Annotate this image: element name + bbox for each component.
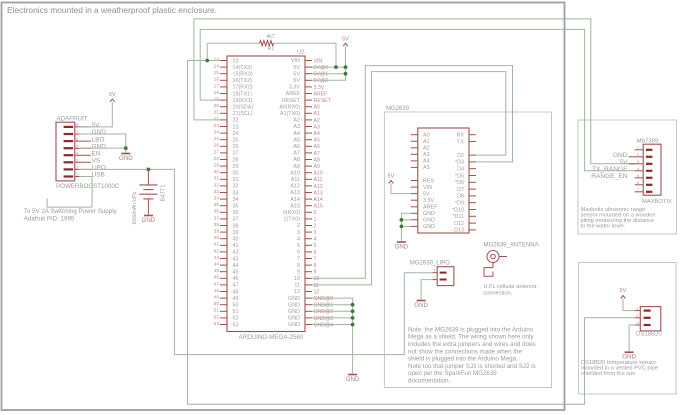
svg-text:2: 2	[637, 152, 640, 157]
wire 5V@1 pin to 5V net	[312, 73, 346, 75]
battery BATT1	[139, 169, 157, 214]
svg-text:A11: A11	[314, 177, 323, 183]
svg-text:*D5: *D5	[455, 173, 464, 179]
svg-text:A4: A4	[423, 159, 430, 165]
connector MG2639_LIPO body	[437, 267, 454, 286]
svg-text:A13: A13	[314, 190, 323, 196]
svg-text:A12: A12	[314, 184, 323, 190]
svg-text:A4: A4	[314, 131, 320, 137]
svg-text:GND: GND	[423, 211, 435, 217]
svg-text:7: 7	[314, 256, 317, 262]
svg-text:13: 13	[214, 57, 220, 63]
svg-text:LiPO: LiPO	[92, 165, 106, 172]
svg-text:GND: GND	[92, 143, 107, 150]
svg-text:42: 42	[214, 248, 220, 254]
svg-text:1: 1	[433, 268, 436, 273]
svg-text:49: 49	[214, 295, 220, 301]
svg-text:USB: USB	[92, 172, 105, 179]
svg-text:A0(RX0): A0(RX0)	[279, 104, 300, 110]
svg-text:5V: 5V	[620, 288, 627, 294]
wire 5V to DS18B20 pin1	[623, 299, 635, 311]
svg-text:A11: A11	[291, 177, 300, 183]
svg-text:2: 2	[297, 223, 300, 229]
svg-text:52: 52	[214, 314, 220, 320]
svg-text:A0: A0	[423, 133, 430, 139]
svg-text:A3: A3	[293, 124, 300, 130]
module box DS18B20 sensor	[579, 263, 677, 395]
wire GND@1	[312, 304, 353, 306]
svg-text:GND@3: GND@3	[314, 316, 334, 322]
svg-text:A14: A14	[314, 197, 323, 203]
svg-text:U.FL cellular antenna: U.FL cellular antenna	[484, 284, 538, 290]
svg-text:4: 4	[76, 150, 79, 155]
svg-text:A8: A8	[314, 157, 320, 163]
svg-text:26: 26	[233, 144, 239, 150]
wire D2 stub ext	[476, 154, 483, 156]
svg-text:Adafruit PID: 1995: Adafruit PID: 1995	[24, 216, 75, 223]
svg-text:25: 25	[233, 138, 239, 144]
svg-text:40: 40	[214, 235, 220, 241]
svg-text:LBO: LBO	[92, 136, 105, 143]
wire GND pin4	[79, 147, 125, 149]
svg-text:5V: 5V	[342, 37, 349, 43]
svg-text:43: 43	[233, 256, 239, 262]
svg-text:VIN: VIN	[314, 58, 323, 64]
svg-text:6: 6	[76, 136, 79, 141]
svg-text:Electronics mounted in a weath: Electronics mounted in a weatherproof pl…	[7, 5, 217, 15]
svg-text:19: 19	[214, 97, 220, 103]
connector MB7389 body	[643, 144, 661, 195]
svg-text:53: 53	[214, 321, 220, 327]
svg-text:includes the extra jumpers and: includes the extra jumpers and wires and…	[408, 341, 536, 348]
note DS18B20 text	[581, 360, 658, 377]
svg-text:A8: A8	[293, 157, 300, 163]
svg-text:34: 34	[233, 197, 239, 203]
svg-text:A4: A4	[293, 131, 300, 137]
svg-text:20: 20	[214, 103, 220, 109]
svg-text:25: 25	[214, 136, 220, 142]
wire pin13 up to R1	[206, 43, 208, 60]
svg-text:7: 7	[76, 129, 79, 134]
wire arduino pin13 net to DS18B20 data	[188, 61, 635, 405]
svg-text:D2: D2	[457, 153, 464, 159]
svg-text:4: 4	[637, 166, 640, 171]
svg-text:Note too that jumper SJ3 is sh: Note too that jumper SJ3 is shorted and …	[408, 363, 536, 370]
svg-text:27: 27	[214, 149, 220, 155]
svg-text:RESET: RESET	[314, 98, 332, 104]
svg-text:AREF: AREF	[423, 205, 438, 211]
svg-text:6: 6	[637, 180, 640, 185]
svg-text:50: 50	[214, 301, 220, 307]
arduino U2 right pins	[305, 61, 312, 325]
junction battery+	[147, 168, 151, 172]
svg-text:A6: A6	[314, 144, 320, 150]
svg-text:D7: D7	[457, 187, 464, 193]
svg-text:44: 44	[233, 263, 239, 269]
svg-text:MG2639_LIPO: MG2639_LIPO	[410, 260, 450, 266]
svg-text:28: 28	[214, 156, 220, 162]
wire 5V arrow to 5V@0 row	[345, 46, 347, 67]
svg-text:9: 9	[314, 270, 317, 276]
wire DS18B20 pin3 to ground	[629, 325, 635, 351]
svg-text:GND: GND	[142, 217, 156, 224]
svg-text:A1: A1	[314, 111, 320, 117]
power symbol 5V DS18B20	[621, 295, 626, 298]
svg-text:A0: A0	[314, 105, 320, 111]
svg-text:*D11: *D11	[452, 214, 464, 220]
POWERBOOST pin bars and stubs	[64, 126, 91, 178]
svg-text:15(RX3): 15(RX3)	[233, 72, 253, 78]
svg-text:46: 46	[214, 275, 220, 281]
wire 5V pin to arrow	[79, 102, 112, 127]
junction GND@1	[351, 303, 355, 307]
svg-text:GND: GND	[423, 218, 435, 224]
svg-text:40: 40	[233, 237, 239, 243]
svg-text:To 5V 2A Switching Power Suppl: To 5V 2A Switching Power Supply	[24, 208, 118, 215]
svg-text:TX_RANGE: TX_RANGE	[592, 166, 628, 173]
svg-text:1: 1	[76, 172, 79, 177]
svg-text:MAXBOTIX: MAXBOTIX	[642, 199, 672, 205]
ground symbol arduino GND	[348, 374, 357, 376]
svg-text:GND: GND	[288, 322, 300, 328]
svg-text:MG2639: MG2639	[386, 106, 410, 112]
svg-text:*D3: *D3	[455, 160, 464, 166]
svg-text:1: 1	[636, 306, 639, 311]
svg-text:5: 5	[314, 243, 317, 249]
svg-text:0: 0	[314, 210, 317, 216]
svg-text:A3: A3	[423, 152, 430, 158]
svg-text:shielded from the sun.: shielded from the sun.	[581, 371, 637, 377]
junction GND@3	[351, 316, 355, 320]
connector DS18B20 body	[640, 307, 661, 331]
junction R1/5V	[334, 65, 338, 69]
svg-text:16(TX2): 16(TX2)	[233, 78, 253, 84]
svg-text:A7: A7	[314, 151, 320, 157]
svg-text:GND: GND	[288, 316, 300, 322]
wire 5V arrow to MG2639 5V pin	[391, 184, 411, 194]
svg-text:23: 23	[233, 124, 239, 130]
svg-text:2: 2	[636, 313, 639, 318]
module box MG2639 shield	[384, 112, 551, 388]
svg-text:43: 43	[214, 255, 220, 261]
svg-text:38: 38	[214, 222, 220, 228]
svg-text:2: 2	[314, 223, 317, 229]
svg-text:A9: A9	[314, 164, 320, 170]
junction 5V arrow	[344, 65, 348, 69]
svg-text:A15: A15	[314, 204, 323, 210]
svg-text:GND: GND	[346, 376, 360, 383]
svg-text:5V: 5V	[293, 71, 300, 77]
svg-text:11: 11	[294, 283, 300, 289]
svg-text:48: 48	[233, 289, 239, 295]
wire LiPO battery net to MG2639_LIPO	[79, 169, 432, 354]
junction pin13/R1	[205, 59, 209, 63]
svg-text:32: 32	[214, 182, 220, 188]
svg-text:GND@4: GND@4	[314, 322, 334, 328]
svg-text:5V: 5V	[109, 92, 116, 98]
svg-text:GND: GND	[288, 296, 300, 302]
svg-text:*D9: *D9	[455, 201, 464, 207]
svg-text:51: 51	[214, 308, 220, 314]
svg-text:49: 49	[233, 296, 239, 302]
svg-text:8: 8	[297, 263, 300, 269]
wire USB pin to external supply note	[47, 177, 92, 208]
svg-text:48: 48	[214, 288, 220, 294]
svg-text:35: 35	[233, 204, 239, 210]
svg-text:EN: EN	[92, 150, 101, 157]
wire GND3	[401, 225, 410, 227]
junction 5V@1	[344, 72, 348, 76]
svg-text:20(SDA): 20(SDA)	[233, 105, 254, 111]
svg-text:5: 5	[637, 173, 640, 178]
svg-text:AREF: AREF	[314, 91, 328, 97]
svg-text:28: 28	[233, 157, 239, 163]
svg-text:5V@0: 5V@0	[314, 65, 329, 71]
wire MG2639 GND bus	[401, 213, 410, 241]
power symbol 5V powerboost	[110, 99, 115, 102]
arduino U2 left pin numbers	[214, 57, 220, 327]
svg-text:3.3V: 3.3V	[289, 85, 300, 91]
svg-text:45: 45	[233, 270, 239, 276]
wire GND@4	[312, 324, 353, 326]
svg-text:1: 1	[637, 145, 640, 150]
wire pin13 node to R1 and R1 to 5V net	[207, 42, 259, 44]
svg-text:5: 5	[76, 143, 79, 148]
svg-text:RANGE_EN: RANGE_EN	[591, 173, 628, 180]
svg-text:5V@1: 5V@1	[314, 72, 329, 78]
svg-text:A2: A2	[423, 146, 430, 152]
svg-text:GND: GND	[288, 309, 300, 315]
svg-text:A14: A14	[290, 197, 300, 203]
svg-text:41: 41	[233, 243, 239, 249]
svg-text:GND@0: GND@0	[314, 296, 334, 302]
svg-text:17: 17	[214, 83, 220, 89]
svg-text:ARDUINO-MEGA-2560: ARDUINO-MEGA-2560	[239, 334, 304, 341]
DS18B20 pins	[635, 306, 651, 326]
svg-text:41: 41	[214, 242, 220, 248]
svg-text:36: 36	[233, 210, 239, 216]
svg-text:3: 3	[76, 158, 79, 163]
svg-text:16: 16	[214, 77, 220, 83]
svg-text:RX: RX	[457, 133, 465, 139]
svg-text:GND: GND	[92, 129, 107, 136]
ground symbol MG2639_LIPO GND	[417, 300, 426, 302]
svg-text:A3: A3	[314, 124, 320, 130]
svg-text:Mega as a shield. The wiring: Mega as a shield. The wiring shown here …	[408, 334, 534, 341]
svg-text:2: 2	[76, 165, 79, 170]
svg-text:A10: A10	[314, 171, 323, 177]
wire arduino GND bus	[312, 298, 353, 373]
svg-text:documentation.: documentation.	[408, 378, 451, 385]
connector POWERBOOST1000C body	[56, 122, 75, 181]
svg-text:47: 47	[233, 283, 239, 289]
svg-text:A13: A13	[290, 190, 300, 196]
svg-text:5V: 5V	[293, 78, 300, 84]
power symbol 5V MG2639	[389, 180, 394, 183]
svg-text:6: 6	[297, 250, 300, 256]
svg-text:26: 26	[214, 143, 220, 149]
svg-text:VIN: VIN	[423, 185, 432, 191]
svg-text:3.3V: 3.3V	[314, 85, 325, 91]
svg-text:R1: R1	[268, 46, 275, 52]
resistor R1 4k7	[260, 41, 274, 46]
module box MAXBOTIX sensor	[578, 120, 677, 234]
svg-text:32: 32	[233, 184, 239, 190]
POWERBOOST pin labels	[92, 122, 107, 179]
svg-text:1(TX0): 1(TX0)	[284, 217, 301, 223]
svg-text:39: 39	[233, 230, 239, 236]
svg-text:*D10: *D10	[452, 207, 464, 213]
svg-text:18(TX1): 18(TX1)	[233, 91, 253, 97]
MB7389 pins	[629, 145, 653, 193]
arduino U2 left inside labels	[233, 58, 254, 328]
svg-text:DS18B20: DS18B20	[636, 332, 662, 338]
svg-text:A5: A5	[314, 138, 320, 144]
svg-text:A7: A7	[293, 151, 300, 157]
svg-text:A10: A10	[290, 170, 300, 176]
svg-text:ADAFRUIT: ADAFRUIT	[57, 116, 88, 123]
svg-text:22: 22	[233, 118, 239, 124]
wire 5V@0 pin to 5V net	[312, 66, 346, 68]
svg-text:29: 29	[214, 163, 220, 169]
svg-text:14(TX3): 14(TX3)	[233, 65, 253, 71]
svg-text:RES: RES	[423, 178, 434, 184]
svg-text:3: 3	[636, 320, 639, 325]
svg-text:5: 5	[297, 243, 300, 249]
svg-text:D13: D13	[454, 228, 464, 234]
svg-text:3: 3	[637, 159, 640, 164]
junction GND bus	[124, 146, 128, 150]
svg-text:GND: GND	[288, 302, 300, 308]
svg-text:3.3V: 3.3V	[423, 198, 434, 204]
svg-text:A1(TX0): A1(TX0)	[280, 111, 300, 117]
wire GND@2	[312, 310, 353, 312]
MG2639 shield chip body	[418, 128, 469, 233]
svg-text:3: 3	[297, 230, 300, 236]
svg-text:6600mAh LiPo: 6600mAh LiPo	[132, 191, 138, 224]
svg-text:GND: GND	[613, 152, 628, 159]
svg-text:1: 1	[314, 217, 317, 223]
antenna MG2639_ANTENNA symbol	[484, 251, 507, 277]
svg-text:35: 35	[214, 202, 220, 208]
svg-text:A1: A1	[423, 139, 430, 145]
svg-text:36: 36	[214, 209, 220, 215]
svg-text:37: 37	[214, 215, 220, 221]
wire GND@3	[312, 317, 353, 319]
svg-text:GND: GND	[395, 243, 409, 250]
svg-text:U2: U2	[297, 50, 304, 56]
svg-text:RESET: RESET	[282, 98, 301, 104]
svg-text:51: 51	[233, 309, 239, 315]
svg-text:39: 39	[214, 229, 220, 235]
svg-text:22: 22	[214, 116, 220, 122]
svg-text:VS: VS	[92, 158, 101, 165]
svg-text:A6: A6	[293, 144, 300, 150]
svg-text:30: 30	[233, 171, 239, 177]
ground symbol DS18B20 GND	[625, 351, 634, 353]
svg-text:27: 27	[233, 151, 239, 157]
POWERBOOST pin numbers 8..1	[76, 122, 79, 177]
svg-text:10: 10	[314, 276, 320, 282]
svg-text:4k7: 4k7	[266, 34, 274, 40]
svg-text:A2: A2	[314, 118, 320, 124]
svg-text:47: 47	[214, 281, 220, 287]
svg-text:29: 29	[233, 164, 239, 170]
svg-text:connection.: connection.	[484, 291, 513, 297]
svg-text:21(SCL): 21(SCL)	[233, 111, 253, 117]
svg-text:7: 7	[297, 256, 300, 262]
MB7389 net labels	[591, 152, 628, 180]
svg-text:D8: D8	[457, 194, 464, 200]
svg-text:38: 38	[233, 223, 239, 229]
MG2639_LIPO pins	[432, 268, 446, 281]
svg-text:44: 44	[214, 262, 220, 268]
junction MG2639 GND2	[400, 225, 404, 229]
svg-text:17(RX2): 17(RX2)	[233, 85, 253, 91]
svg-text:13: 13	[233, 58, 239, 64]
junction GND@4	[351, 323, 355, 327]
svg-text:15: 15	[214, 70, 220, 76]
svg-text:shield is plugged into the Ard: shield is plugged into the Arduino Mega.	[408, 356, 518, 363]
svg-text:TX: TX	[457, 139, 464, 145]
svg-text:30: 30	[214, 169, 220, 175]
wire arduino pin19 RX1 to maxbotix TX_RANGE	[200, 29, 635, 170]
power symbol 5V arduino	[343, 43, 348, 46]
svg-text:BATT1: BATT1	[161, 185, 167, 202]
svg-text:Note: the MG2639 is plugged in: Note: the MG2639 is plugged into the Ard…	[408, 326, 534, 333]
svg-text:11: 11	[314, 283, 319, 289]
svg-text:5V: 5V	[388, 174, 395, 180]
svg-text:7: 7	[637, 187, 640, 192]
junction MG2639 GND	[400, 218, 404, 222]
svg-text:31: 31	[233, 177, 239, 183]
junction GND@2	[351, 309, 355, 313]
svg-text:0(RX0): 0(RX0)	[283, 210, 300, 216]
svg-text:45: 45	[214, 268, 220, 274]
svg-text:5V: 5V	[619, 159, 628, 166]
svg-text:GND@2: GND@2	[314, 309, 334, 315]
svg-text:12: 12	[314, 289, 320, 295]
svg-text:8: 8	[76, 122, 79, 127]
svg-text:A5: A5	[423, 165, 430, 171]
arduino U2 right inside labels	[279, 58, 300, 328]
svg-text:31: 31	[214, 176, 220, 182]
ground symbol MG2639 GND	[397, 241, 406, 243]
wire GND2	[401, 219, 410, 221]
svg-text:D12: D12	[454, 221, 464, 227]
svg-text:MG2639_ANTENNA: MG2639_ANTENNA	[484, 242, 539, 248]
svg-text:18: 18	[214, 90, 220, 96]
svg-text:5V: 5V	[92, 122, 101, 129]
svg-text:GND: GND	[119, 155, 133, 162]
wire powerboost GND pins to ground	[79, 134, 125, 153]
svg-text:52: 52	[233, 316, 239, 322]
svg-text:14: 14	[214, 64, 220, 70]
svg-text:not show the connections made: not show the connections made when the	[408, 348, 522, 355]
svg-text:3: 3	[314, 230, 317, 236]
wire D3 stub ext	[476, 161, 483, 163]
svg-text:37: 37	[233, 217, 239, 223]
svg-text:6: 6	[314, 250, 317, 256]
wire arduino pin22 to maxbotix pin3	[194, 19, 635, 164]
svg-text:12: 12	[294, 289, 300, 295]
wire arduino pin11 to MG2639 D2	[312, 72, 506, 285]
note MG2639 shield text block	[408, 326, 536, 384]
svg-text:53: 53	[233, 322, 239, 328]
svg-text:POWERBOOST1000C: POWERBOOST1000C	[56, 183, 120, 190]
svg-text:A2: A2	[293, 118, 300, 124]
svg-text:A12: A12	[290, 184, 300, 190]
